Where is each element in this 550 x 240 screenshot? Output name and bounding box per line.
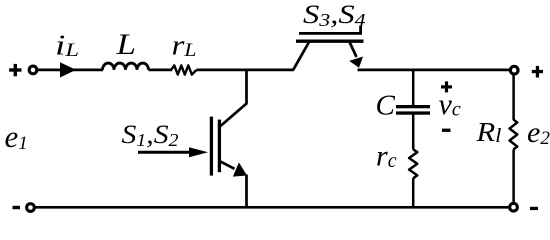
wire emitter to bottom rail [245,175,248,208]
wire rc to bottom rail [412,178,415,207]
resistor rc [409,149,417,178]
wire S3 emitter to output node [358,69,511,72]
minus sign vc [442,129,451,132]
bottom rail wire [35,206,509,209]
transistor Q S3,S4 gate bar [299,32,362,35]
current arrow iL [60,62,76,77]
transistor Q S1,S2 gate bar [210,117,213,176]
transistor Q S1,S2 body bar [218,120,221,173]
plus sign vc [441,81,452,92]
emitter arrow of S1,S2 [219,161,234,169]
wire rL to S3 collector [197,69,295,72]
plus sign output [532,66,543,78]
wire capacitor to rc [412,115,415,150]
input terminal circle top [29,66,37,74]
capacitor C plates [396,105,430,115]
svg-text:C: C [376,89,396,121]
node junction riser to S1,S2 collector [221,70,247,126]
transistor Q S3,S4 body bar [296,40,364,43]
output terminal circle bottom [510,203,518,211]
wire Rl to bottom node [512,150,515,204]
gate drive arrow S1,S2 [138,151,192,154]
resistor rL [171,65,196,74]
wire inductor to rL [149,69,173,72]
wire rail to capacitor [412,70,415,106]
emitter arrow S3,S4 [349,42,356,58]
resistor Rl [510,120,518,150]
wire output node to Rl [512,74,515,120]
collector lead S3,S4 [293,41,309,69]
minus sign input [13,206,21,209]
minus sign output [530,207,538,210]
svg-text:L: L [115,28,136,61]
gate stub S3,S4 [359,26,362,35]
input terminal circle bottom [27,204,35,212]
output terminal circle top [510,66,518,74]
inductor L [103,63,149,70]
wire input to inductor [37,69,103,72]
input plus sign [9,64,21,76]
